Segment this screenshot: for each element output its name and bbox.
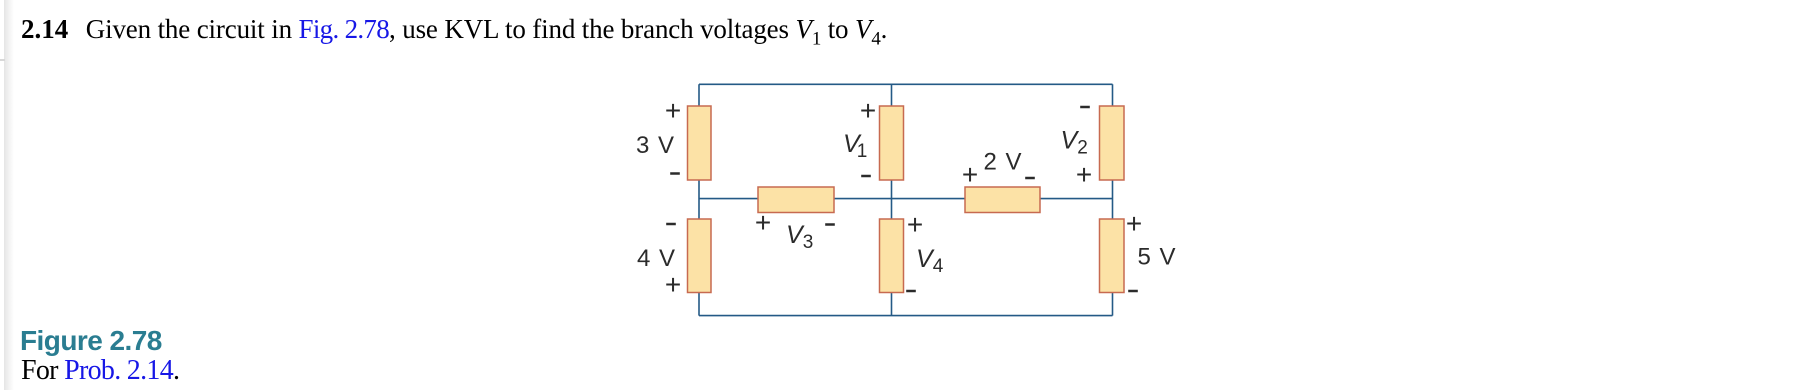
wire: middle rail (699, 198, 1113, 200)
element V1 body (880, 106, 904, 180)
element V2 body (1100, 106, 1125, 180)
wire: bottom rail (699, 315, 1113, 317)
svg-text:+: + (860, 95, 876, 126)
polarity - of V3 (825, 223, 835, 226)
svg-text:4 V: 4 V (637, 245, 675, 272)
svg-text:+: + (962, 159, 978, 190)
svg-text:+: + (907, 209, 923, 240)
svg-text:V4: V4 (916, 245, 944, 277)
svg-text:V2: V2 (1061, 127, 1088, 159)
svg-text:V1: V1 (843, 130, 867, 162)
gray divider tick (0, 59, 5, 61)
svg-text:+: + (1126, 208, 1142, 239)
source 4V body (688, 219, 712, 293)
polarity - of 5V (1128, 290, 1138, 293)
svg-text:2 V: 2 V (984, 149, 1022, 176)
wire: left vertical (698, 84, 700, 315)
polarity - of 3V (670, 172, 680, 175)
caption Figure 2.78 (20, 325, 162, 357)
problem statement text (21, 14, 887, 50)
svg-text:+: + (665, 269, 681, 300)
svg-text:5 V: 5 V (1138, 244, 1176, 271)
svg-text:+: + (665, 95, 681, 126)
source 2V body (965, 187, 1040, 213)
source 5V body (1100, 219, 1125, 293)
svg-text:+: + (755, 207, 771, 238)
polarity - of V4 (906, 290, 916, 293)
element V3 body (758, 187, 834, 213)
wire: right vertical (1112, 84, 1114, 315)
svg-text:+: + (1076, 159, 1092, 190)
svg-text:V3: V3 (786, 221, 813, 253)
polarity - of V1 (861, 175, 871, 178)
source 3V body (688, 106, 712, 180)
wire: top rail (699, 83, 1113, 85)
svg-text:3 V: 3 V (636, 132, 674, 159)
polarity - of 2V (1025, 177, 1035, 180)
element V4 body (880, 219, 904, 293)
caption For Prob. 2.14. (21, 355, 179, 387)
polarity - of 4V (666, 223, 676, 226)
polarity - of V2 (1080, 106, 1090, 109)
left panel shadow (4, 0, 14, 390)
wire: middle vertical (891, 84, 893, 315)
